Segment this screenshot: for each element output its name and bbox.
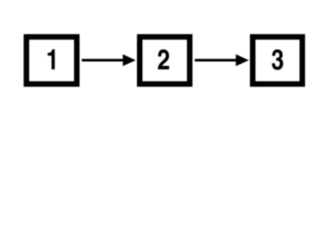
- label 3: [272, 49, 283, 70]
- wire arrow 2 line: [195, 59, 238, 62]
- wire arrow 1 line: [82, 59, 125, 62]
- label 2: [158, 49, 169, 69]
- node box 1: [26, 37, 76, 84]
- arrowhead 1: [123, 54, 136, 66]
- node box 2: [140, 37, 190, 84]
- node box 3: [253, 37, 303, 84]
- label 1: [48, 49, 55, 69]
- arrowhead 2: [236, 54, 249, 66]
